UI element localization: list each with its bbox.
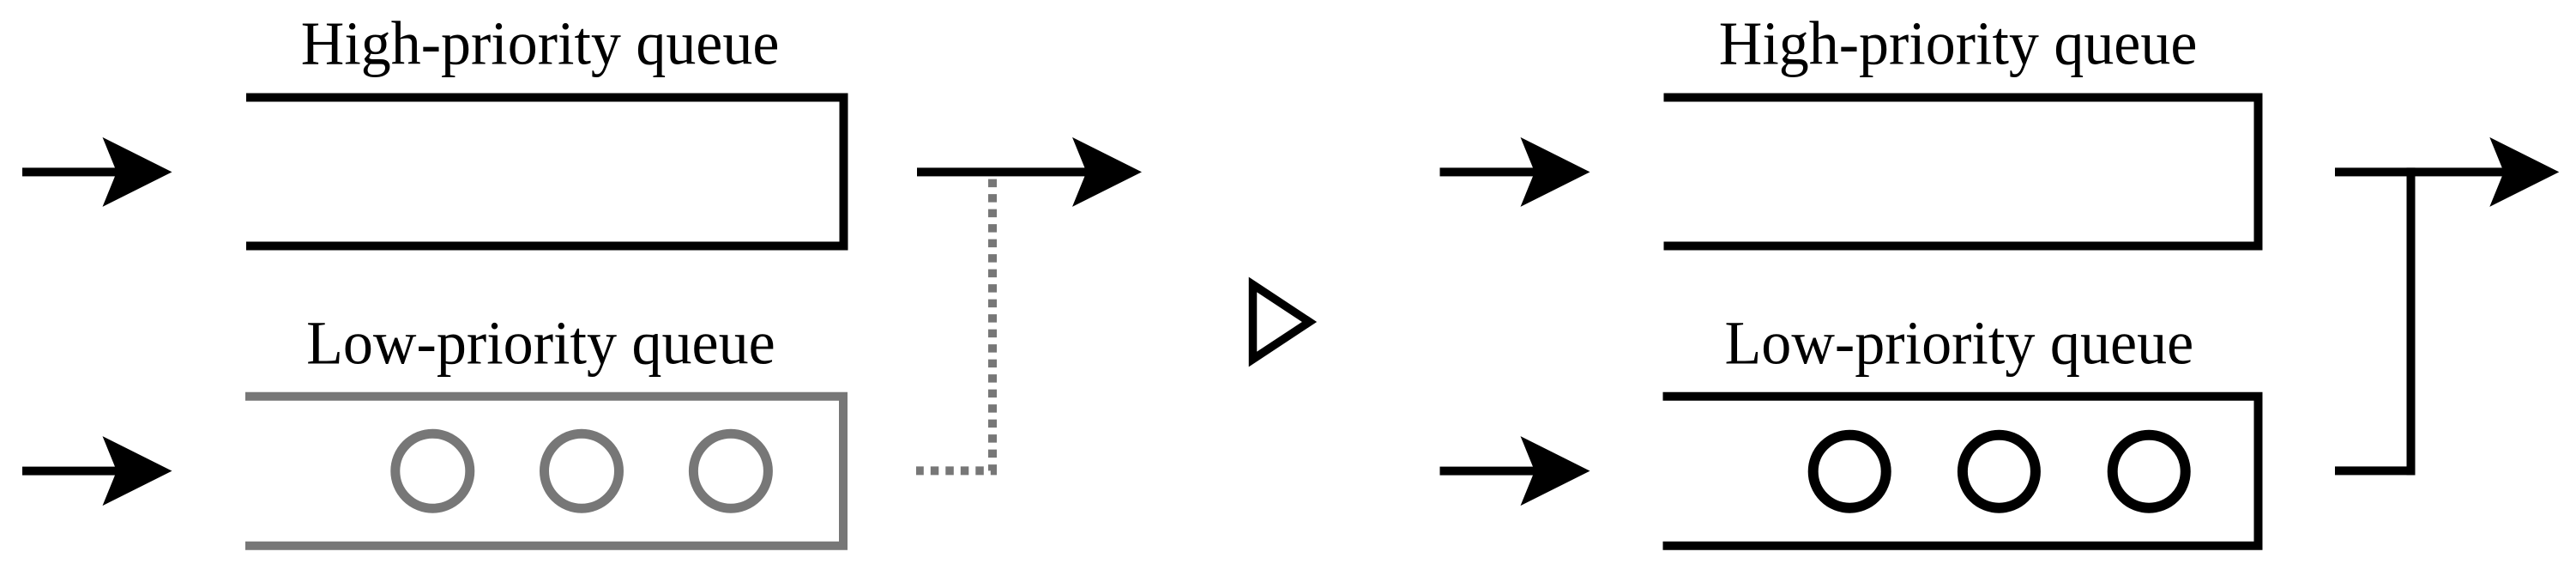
job circle 1 in low-priority queue (left), gray	[395, 434, 470, 508]
svg-text:Low-priority queue: Low-priority queue	[1725, 308, 2194, 377]
input arrow to high-priority queue (left)	[22, 137, 172, 207]
input arrow to high-priority queue (right)	[1440, 137, 1590, 207]
output arrow from high-priority queue (left)	[917, 137, 1142, 207]
low-priority queue box (right), black	[1663, 397, 2259, 546]
output arrow from merged queues (right)	[2335, 137, 2559, 207]
merged output line (right): vertical branch	[2407, 167, 2416, 475]
dotted service line from low-priority queue to server (left), gray	[916, 179, 992, 471]
svg-text:High-priority queue: High-priority queue	[301, 9, 780, 78]
job circle 3 in low-priority queue (left), gray	[693, 434, 768, 508]
svg-text:Low-priority queue: Low-priority queue	[306, 308, 775, 377]
low-priority queue box (left), gray	[245, 397, 843, 546]
merged output line from low-priority queue (right): horizontal stub	[2335, 466, 2416, 475]
job circle 3 in low-priority queue (right), black	[2113, 435, 2186, 508]
high-priority queue box (left)	[246, 98, 844, 246]
job circle 2 in low-priority queue (left), gray	[545, 434, 619, 508]
job circle 2 in low-priority queue (right), black	[1963, 435, 2036, 508]
job circle 1 in low-priority queue (right), black	[1813, 435, 1886, 508]
high-priority queue box (right)	[1664, 98, 2259, 246]
input arrow to low-priority queue (left)	[22, 436, 172, 506]
input arrow to low-priority queue (right)	[1440, 436, 1590, 506]
svg-text:High-priority queue: High-priority queue	[1719, 9, 2198, 78]
transformation triangle (maps-to symbol)	[1253, 285, 1310, 360]
